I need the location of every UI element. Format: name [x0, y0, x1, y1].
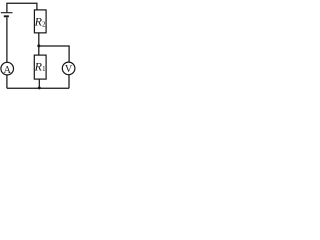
- battery cell short plate: [4, 15, 9, 17]
- battery cell long plate: [1, 12, 13, 14]
- node junction dot (R2/R1/voltmeter node): [37, 44, 40, 47]
- wire R1 bottom stub: [38, 79, 40, 88]
- wire left lower (ammeter to bottom): [6, 75, 8, 88]
- wire middle (junction to voltmeter): [39, 46, 69, 62]
- svg-text:V: V: [65, 64, 73, 75]
- node junction dot (bottom wire node): [38, 86, 41, 89]
- ammeter A circle: [1, 62, 14, 75]
- wire R2 bottom stub: [38, 33, 40, 46]
- wire voltmeter to bottom: [68, 75, 70, 89]
- svg-text:A: A: [3, 65, 11, 76]
- resistor R2 box: [34, 10, 46, 33]
- svg-text:R2: R2: [34, 15, 46, 29]
- svg-text:R1: R1: [34, 60, 46, 74]
- wire bottom: [7, 87, 69, 89]
- wire R1 top stub: [38, 46, 40, 55]
- wire top (battery top to R2 top): [7, 3, 37, 12]
- resistor R1 box: [34, 55, 46, 79]
- voltmeter V circle: [62, 62, 75, 75]
- wire left (battery to ammeter): [6, 17, 8, 62]
